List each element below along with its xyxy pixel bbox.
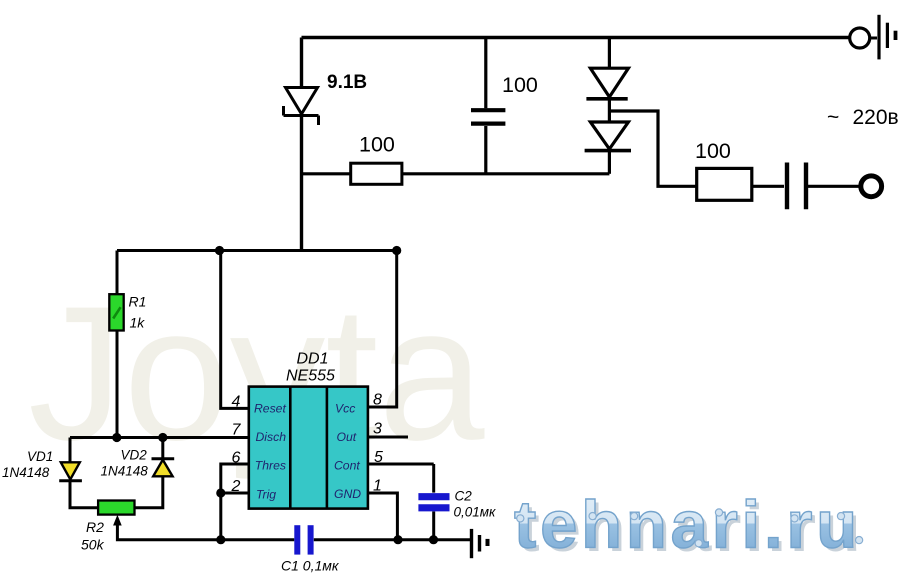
svg-text:Disch: Disch [256, 430, 287, 444]
zener diode VD 9.1V [284, 88, 319, 126]
svg-text:0,01мк: 0,01мк [454, 505, 497, 520]
svg-text:50k: 50k [81, 537, 105, 553]
svg-text:3: 3 [373, 421, 382, 438]
svg-text:NE555: NE555 [286, 368, 335, 385]
svg-text:DD1: DD1 [297, 351, 329, 368]
wire pin5 cont stub [368, 463, 434, 466]
svg-text:VD2: VD2 [121, 448, 148, 463]
wire mid rail [117, 249, 397, 252]
wire pin2 trig stub [221, 492, 249, 495]
wire resistor to capacitor [752, 185, 784, 188]
wire bottom rail left [117, 539, 294, 540]
capacitor C1 [297, 525, 310, 554]
svg-text:Trig: Trig [256, 488, 276, 502]
zener diode VD 9.1V vertical wire [300, 38, 303, 252]
svg-text:9.1В: 9.1В [327, 72, 367, 93]
resistor R1 [109, 294, 123, 330]
wire pin6 thres branch [221, 464, 249, 540]
svg-text:Out: Out [337, 430, 357, 444]
svg-text:~220в: ~220в [827, 106, 899, 129]
wire pin1 gnd stub [368, 493, 398, 540]
svg-text:1N4148: 1N4148 [2, 465, 50, 480]
wire terminal to ground [870, 37, 878, 40]
svg-text:tehnari.ru: tehnari.ru [514, 488, 861, 563]
svg-text:Reset: Reset [254, 402, 286, 416]
svg-text:VD1: VD1 [27, 449, 53, 464]
wire diode midpoint to output resistor [609, 111, 696, 186]
resistor 100 (top left) [351, 163, 402, 184]
node junction R1/disch [112, 433, 121, 442]
node junction pin2 [216, 488, 225, 497]
terminal circle (top of 220V) [850, 28, 870, 48]
wire top rail [302, 36, 851, 40]
resistor 100 (right) [697, 168, 752, 200]
svg-text:Cont: Cont [334, 459, 360, 473]
svg-text:R1: R1 [129, 294, 147, 310]
node junction C2/rail [429, 535, 438, 544]
watermark tehnari.ru screw details [517, 509, 863, 547]
svg-text:1k: 1k [130, 315, 146, 331]
svg-text:GND: GND [334, 487, 361, 501]
svg-text:100: 100 [359, 133, 395, 157]
svg-text:1N4148: 1N4148 [101, 464, 149, 479]
wire capacitor to terminal [808, 185, 861, 188]
ground (top right) [879, 15, 896, 60]
wire pin8 branch [368, 251, 397, 408]
ground (bottom) [472, 529, 488, 558]
diode D2 (bottom of pair) [585, 99, 631, 174]
wire pin3 out stub [368, 436, 408, 439]
svg-text:100: 100 [502, 73, 538, 97]
node junction thres/rail [216, 535, 225, 544]
diode VD1 [59, 438, 98, 508]
diode D1 (top of pair) [586, 38, 628, 99]
capacitor C2 [418, 464, 449, 540]
svg-text:7: 7 [232, 422, 242, 439]
wire R1 top [116, 251, 119, 295]
potentiometer R2 wiper arrow [113, 515, 122, 539]
svg-text:R2: R2 [86, 519, 104, 535]
diode VD2 [135, 438, 175, 508]
potentiometer R2 [98, 501, 134, 515]
svg-text:C2: C2 [455, 489, 473, 504]
node junction gnd/rail [393, 535, 402, 544]
svg-text:4: 4 [232, 394, 241, 411]
svg-text:Thres: Thres [255, 459, 286, 473]
wire resistor to diode column [402, 172, 610, 175]
wire pin4 branch [221, 251, 249, 409]
svg-text:8: 8 [373, 392, 382, 409]
wire R1 bottom [116, 331, 119, 438]
svg-text:C1 0,1мк: C1 0,1мк [281, 558, 340, 574]
node junction mid rail left [215, 246, 224, 255]
svg-text:Vcc: Vcc [335, 402, 355, 416]
wire discharge row [70, 436, 249, 439]
capacitor 100 (top) [471, 38, 505, 174]
capacitor (series, right) [787, 163, 806, 210]
wire bottom rail right [314, 538, 470, 541]
wire zener to resistor row [302, 172, 351, 175]
watermark tehnari.ru [514, 488, 865, 567]
node junction VD2/disch [158, 433, 167, 442]
svg-text:100: 100 [695, 139, 731, 163]
IC DD1 NE555 body [249, 387, 368, 509]
terminal circle (bottom of 220V) [861, 176, 882, 197]
node junction mid rail right [392, 246, 401, 255]
